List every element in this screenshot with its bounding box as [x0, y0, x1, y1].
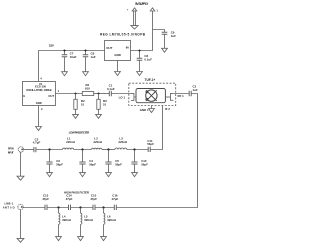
ground below C6 — [83, 72, 89, 76]
svg-text:RF IN: RF IN — [8, 146, 14, 150]
wire J1 ground — [20, 152, 22, 176]
inductor L1 — [63, 148, 74, 149]
capacitor C5 (shunt 56pF) — [105, 150, 111, 173]
wire C15 to C16 — [95, 207, 114, 209]
svg-text:TUF-1+: TUF-1+ — [145, 78, 156, 82]
inductor L3 — [115, 148, 127, 149]
wire L2 to L3 — [102, 149, 115, 151]
svg-text:1: 1 — [156, 9, 158, 13]
svg-text:56pF: 56pF — [56, 162, 63, 166]
svg-text:390nH: 390nH — [62, 218, 71, 222]
inductor L5 (shunt 390nH) — [81, 208, 82, 237]
capacitor C13 (series 47pF) — [45, 205, 47, 210]
ground below L5 — [78, 237, 84, 241]
svg-text:GND 1: GND 1 — [140, 108, 149, 112]
node LPF junction 4 — [133, 148, 135, 150]
power flag 5V (right arrow) — [150, 8, 155, 11]
wire R4 to C1 — [94, 93, 109, 95]
capacitor C16 (series 47pF) — [114, 205, 116, 210]
ground below R2 — [73, 114, 79, 118]
wire L3 to C11 — [127, 149, 148, 151]
svg-text:OUT: OUT — [106, 46, 112, 50]
svg-text:+: + — [127, 9, 129, 12]
svg-text:56pF: 56pF — [89, 162, 96, 166]
capacitor C15 (series 47pF) — [93, 205, 95, 210]
wire regulator GND — [117, 61, 119, 72]
node HPF junction 1 — [57, 206, 59, 208]
node C8 tap — [139, 50, 141, 52]
connector J2 ANT — [18, 204, 23, 209]
svg-text:51: 51 — [103, 103, 107, 107]
wire 5V vertical to regulator IN — [131, 11, 153, 51]
wire C2 to L1 — [36, 149, 62, 151]
node C6 tap — [85, 50, 87, 52]
wire J2 to C13 — [23, 207, 45, 209]
svg-text:220nH: 220nH — [93, 140, 102, 144]
svg-text:OUT: OUT — [48, 94, 54, 98]
svg-text:1uF: 1uF — [193, 88, 198, 92]
svg-text:OSCILLATOR, 10MHz: OSCILLATOR, 10MHz — [26, 88, 52, 92]
svg-text:IF 2: IF 2 — [165, 107, 170, 111]
resistor R3 (shunt 51) — [97, 94, 100, 115]
node R2 tap — [75, 93, 77, 95]
node LPF junction 1 — [48, 148, 50, 150]
ground below C4 — [80, 173, 86, 177]
node LPF junction 2 — [81, 148, 83, 150]
svg-text:E: E — [23, 94, 25, 98]
svg-text:LO 1: LO 1 — [119, 96, 126, 100]
capacitor C7 (10uF on 3.3V rail) — [62, 51, 68, 72]
ground below C8 — [137, 72, 143, 76]
wire C1 to mixer LO — [112, 93, 134, 95]
svg-text:1: 1 — [58, 89, 60, 93]
ground below mixer — [149, 109, 155, 113]
svg-text:IN: IN — [126, 46, 129, 50]
svg-text:47pF: 47pF — [112, 197, 119, 201]
voltage regulator U2 — [105, 41, 131, 61]
wire J2 ground — [20, 210, 22, 239]
svg-text:47pF: 47pF — [66, 197, 73, 201]
ground below C5 — [106, 173, 112, 177]
svg-text:4: 4 — [40, 76, 42, 80]
inductor L6 (shunt 390nH) — [104, 208, 105, 237]
svg-text:390nH: 390nH — [107, 218, 116, 222]
node HPF junction 2 — [79, 206, 81, 208]
ground below J1 — [17, 176, 24, 180]
svg-text:47pF: 47pF — [42, 197, 49, 201]
node C7 tap — [64, 50, 66, 52]
capacitor C1 (series 0.1uF) — [109, 91, 111, 96]
ground below L6 — [101, 237, 107, 241]
capacitor C14 (series 47pF) — [69, 205, 71, 210]
wire C12 down right side to high pass filter — [117, 94, 198, 208]
power flag 5V SUPPLY (left, with ground pair) — [131, 8, 138, 29]
svg-text:REG LM78L05-5.0/NOPB: REG LM78L05-5.0/NOPB — [100, 33, 146, 37]
capacitor C9 — [162, 32, 168, 48]
svg-text:47pF: 47pF — [90, 197, 97, 201]
ground below C3 — [47, 173, 53, 177]
wire oscillator GND — [38, 106, 40, 127]
wire oscillator OUT to attenuator — [56, 93, 83, 95]
svg-text:0.1uF: 0.1uF — [144, 58, 152, 62]
resistor R2 (shunt 51) — [74, 94, 77, 115]
svg-text:56pF: 56pF — [141, 162, 148, 166]
svg-text:390nH: 390nH — [84, 218, 93, 222]
capacitor C2 (series 4.7pF) — [34, 147, 36, 152]
wire C13 to C14 — [47, 207, 68, 209]
svg-text:220nH: 220nH — [66, 140, 75, 144]
svg-text:0.1uF: 0.1uF — [107, 87, 115, 91]
inductor L2 — [92, 148, 102, 149]
svg-text:INPUT: INPUT — [8, 151, 14, 155]
mixer U3 TUF-1+ — [129, 83, 176, 105]
svg-text:ANT I/O: ANT I/O — [3, 206, 15, 210]
svg-text:LOW PASS FILTER: LOW PASS FILTER — [69, 131, 90, 135]
wire branch to C9 — [153, 30, 165, 33]
capacitor C11 (series 56pF) — [148, 147, 150, 152]
svg-text:1uF: 1uF — [91, 55, 96, 59]
svg-text:1uF: 1uF — [171, 34, 176, 38]
wire J1 to C2 — [24, 149, 34, 151]
svg-text:RF 1: RF 1 — [178, 94, 185, 98]
node LPF junction 3 — [107, 148, 109, 150]
resistor R4 (series 910) — [82, 92, 93, 96]
capacitor C10 (shunt 56pF) — [131, 150, 137, 173]
capacitor C4 (shunt 56pF) — [79, 150, 85, 173]
ground below C10 — [132, 173, 138, 177]
svg-text:5V SUPPLY: 5V SUPPLY — [135, 2, 149, 6]
svg-text:910: 910 — [85, 86, 90, 90]
ground below C9 — [162, 48, 168, 52]
wire mixer GND pin — [151, 106, 153, 109]
ground below regulator — [115, 72, 121, 76]
capacitor C8 (0.1uF at regulator IN) — [137, 51, 143, 72]
wire C14 to C15 — [71, 207, 93, 209]
ground below R3 — [96, 114, 102, 118]
ground below J2 — [17, 238, 24, 242]
svg-text:GND: GND — [36, 101, 42, 105]
capacitor C12 (series 0.1uF) — [189, 91, 191, 96]
wire mixer RF to C12 — [171, 93, 190, 95]
svg-text:56pF: 56pF — [147, 142, 154, 146]
svg-text:10uF: 10uF — [70, 55, 77, 59]
inductor L4 (shunt 390nH) — [59, 208, 60, 237]
svg-text:56pF: 56pF — [115, 162, 122, 166]
svg-text:51: 51 — [81, 103, 85, 107]
svg-text:4.7pF: 4.7pF — [33, 141, 41, 145]
svg-text:2: 2 — [41, 107, 43, 111]
svg-text:3.3V: 3.3V — [49, 43, 54, 47]
wire mixer IF to low pass filter — [150, 106, 162, 150]
oscillator U1 — [23, 82, 56, 106]
capacitor C3 (shunt 56pF) — [46, 150, 52, 173]
connector J1 RF IN — [18, 147, 23, 152]
svg-text:LMB-1: LMB-1 — [5, 202, 14, 206]
node R3 tap — [98, 93, 100, 95]
svg-text:220nH: 220nH — [118, 140, 127, 144]
ground below L4 — [56, 237, 62, 241]
ground below oscillator — [36, 127, 42, 131]
wire L1 to L2 — [74, 149, 92, 151]
svg-text:GND: GND — [114, 53, 120, 57]
node HPF junction 3 — [102, 206, 104, 208]
capacitor C6 (1uF on 3.3V rail) — [83, 51, 89, 72]
wire regulator OUT to 3.3V rail and oscillator VCC — [39, 51, 105, 82]
ground below C7 — [62, 72, 68, 76]
